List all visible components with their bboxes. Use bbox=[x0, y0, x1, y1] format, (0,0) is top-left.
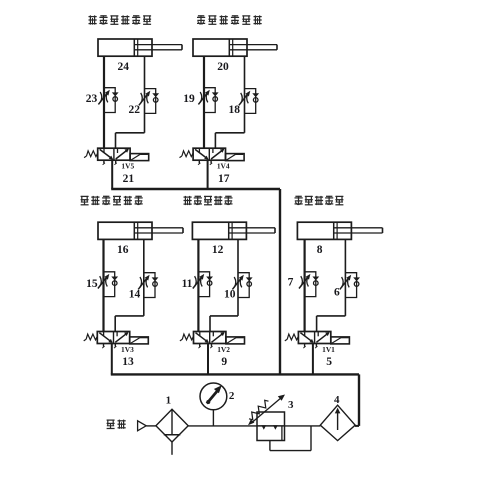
caption: middle-center cylinder name 铝出料气缸 bbox=[184, 196, 233, 205]
wire: valve 13 supply drop to manifold bbox=[111, 344, 113, 375]
one-way flow control valve 19 bbox=[183, 88, 218, 113]
lubricator, item 4 bbox=[320, 394, 355, 441]
one-way flow control valve 10 bbox=[224, 273, 253, 301]
wire: top air supply bus bbox=[111, 188, 280, 190]
air source symbol (气源 triangle) bbox=[138, 421, 147, 431]
wire: cylinder 24 left port to valve 21 port A bbox=[103, 56, 105, 148]
svg-text:11: 11 bbox=[182, 278, 193, 290]
wire: cylinder 12 left port to valve 9 port A bbox=[197, 239, 199, 331]
solenoid valve 9 (1V2) bbox=[180, 332, 245, 369]
one-way flow control valve 23 bbox=[86, 88, 119, 113]
svg-text:15: 15 bbox=[86, 278, 98, 290]
wire: valve 17 supply drop to air bus bbox=[207, 160, 209, 189]
svg-text:23: 23 bbox=[86, 93, 98, 105]
cylinder C24 bbox=[98, 39, 182, 73]
svg-text:1V2: 1V2 bbox=[217, 345, 230, 354]
caption: middle-right cylinder name 铁出料气缸 bbox=[295, 196, 344, 205]
svg-text:1V4: 1V4 bbox=[217, 162, 230, 171]
svg-text:13: 13 bbox=[122, 356, 134, 368]
svg-text:14: 14 bbox=[129, 289, 141, 301]
pressure regulator (relief type), item 3 bbox=[248, 395, 294, 441]
wire: valve 9 supply drop to manifold bbox=[207, 344, 209, 375]
svg-text:8: 8 bbox=[317, 244, 323, 256]
wire: valve 5 supply drop to manifold bbox=[312, 344, 314, 375]
wire: bus down-drop to middle manifold bbox=[279, 189, 281, 374]
svg-text:1: 1 bbox=[166, 395, 172, 407]
svg-text:7: 7 bbox=[288, 277, 294, 289]
solenoid valve 17 (1V4) bbox=[180, 148, 245, 185]
svg-text:12: 12 bbox=[212, 244, 224, 256]
one-way flow control valve 15 bbox=[86, 272, 118, 297]
wire: cylinder 24 right port down, jog left into valve 21 port B bbox=[116, 56, 145, 148]
svg-text:18: 18 bbox=[229, 104, 241, 116]
caption: top-left cylinder name 料槽出料气缸 bbox=[89, 15, 152, 24]
svg-text:2: 2 bbox=[229, 390, 235, 402]
svg-text:20: 20 bbox=[217, 61, 229, 73]
solenoid valve 13 (1V3) bbox=[84, 332, 149, 369]
filter with water separator, item 1 bbox=[156, 395, 188, 455]
wire: regulator to lubricator bbox=[285, 425, 321, 427]
one-way flow control valve 14 bbox=[129, 273, 159, 301]
solenoid valve 5 (1V1) bbox=[285, 332, 350, 369]
svg-text:5: 5 bbox=[326, 356, 332, 368]
wire: cylinder 20 left port to valve 17 port A bbox=[203, 56, 205, 148]
wire: middle air supply manifold bbox=[111, 373, 359, 375]
cylinder C12 bbox=[192, 222, 275, 256]
caption: top-right cylinder name 蓝色颜料气缸 bbox=[197, 15, 262, 24]
wire: cylinder 8 left port to valve 5 port A bbox=[304, 239, 306, 331]
cylinder C20 bbox=[193, 39, 277, 73]
svg-text:16: 16 bbox=[117, 244, 129, 256]
svg-text:1V3: 1V3 bbox=[121, 345, 134, 354]
one-way flow control valve 7 bbox=[288, 272, 320, 297]
svg-text:22: 22 bbox=[129, 104, 141, 116]
wire: filter to regulator bbox=[188, 425, 257, 427]
wire: cylinder 8 right port down, jog left into valve 5 port B bbox=[317, 239, 346, 331]
one-way flow control valve 6 bbox=[334, 273, 360, 299]
svg-text:9: 9 bbox=[221, 356, 227, 368]
wire: cylinder 16 right port down, jog left into valve 13 port B bbox=[115, 239, 144, 331]
cylinder C8 bbox=[297, 222, 382, 256]
caption: middle-left cylinder name 黄色颜料气缸 bbox=[81, 196, 143, 205]
svg-text:24: 24 bbox=[118, 61, 130, 73]
pressure gauge, item 2 bbox=[200, 383, 235, 426]
solenoid valve 21 (1V5) bbox=[84, 148, 149, 185]
svg-text:6: 6 bbox=[334, 287, 340, 299]
wire: cylinder 12 right port down, jog left into valve 9 port B bbox=[210, 239, 238, 331]
wire: manifold right side down to FRL outlet bbox=[355, 374, 359, 426]
wire: regulator feedback loop bbox=[270, 426, 311, 451]
cylinder C16 bbox=[98, 222, 183, 256]
wire: cylinder 20 right port down, jog left into valve 17 port B bbox=[215, 56, 244, 148]
caption: air source 气源 bbox=[107, 420, 126, 429]
svg-text:1V1: 1V1 bbox=[322, 345, 335, 354]
svg-text:3: 3 bbox=[288, 399, 294, 411]
one-way flow control valve 11 bbox=[182, 272, 213, 297]
wire: cylinder 16 left port to valve 13 port A bbox=[102, 239, 104, 331]
svg-text:10: 10 bbox=[224, 289, 236, 301]
one-way flow control valve 22 bbox=[129, 89, 160, 116]
svg-text:21: 21 bbox=[123, 173, 135, 185]
wire: source to filter bbox=[146, 425, 156, 427]
svg-text:19: 19 bbox=[183, 93, 195, 105]
svg-text:17: 17 bbox=[218, 173, 230, 185]
svg-text:1V5: 1V5 bbox=[121, 162, 134, 171]
wire: valve 21 supply drop to air bus bbox=[111, 160, 113, 189]
svg-text:4: 4 bbox=[334, 394, 340, 406]
one-way flow control valve 18 bbox=[229, 89, 260, 116]
